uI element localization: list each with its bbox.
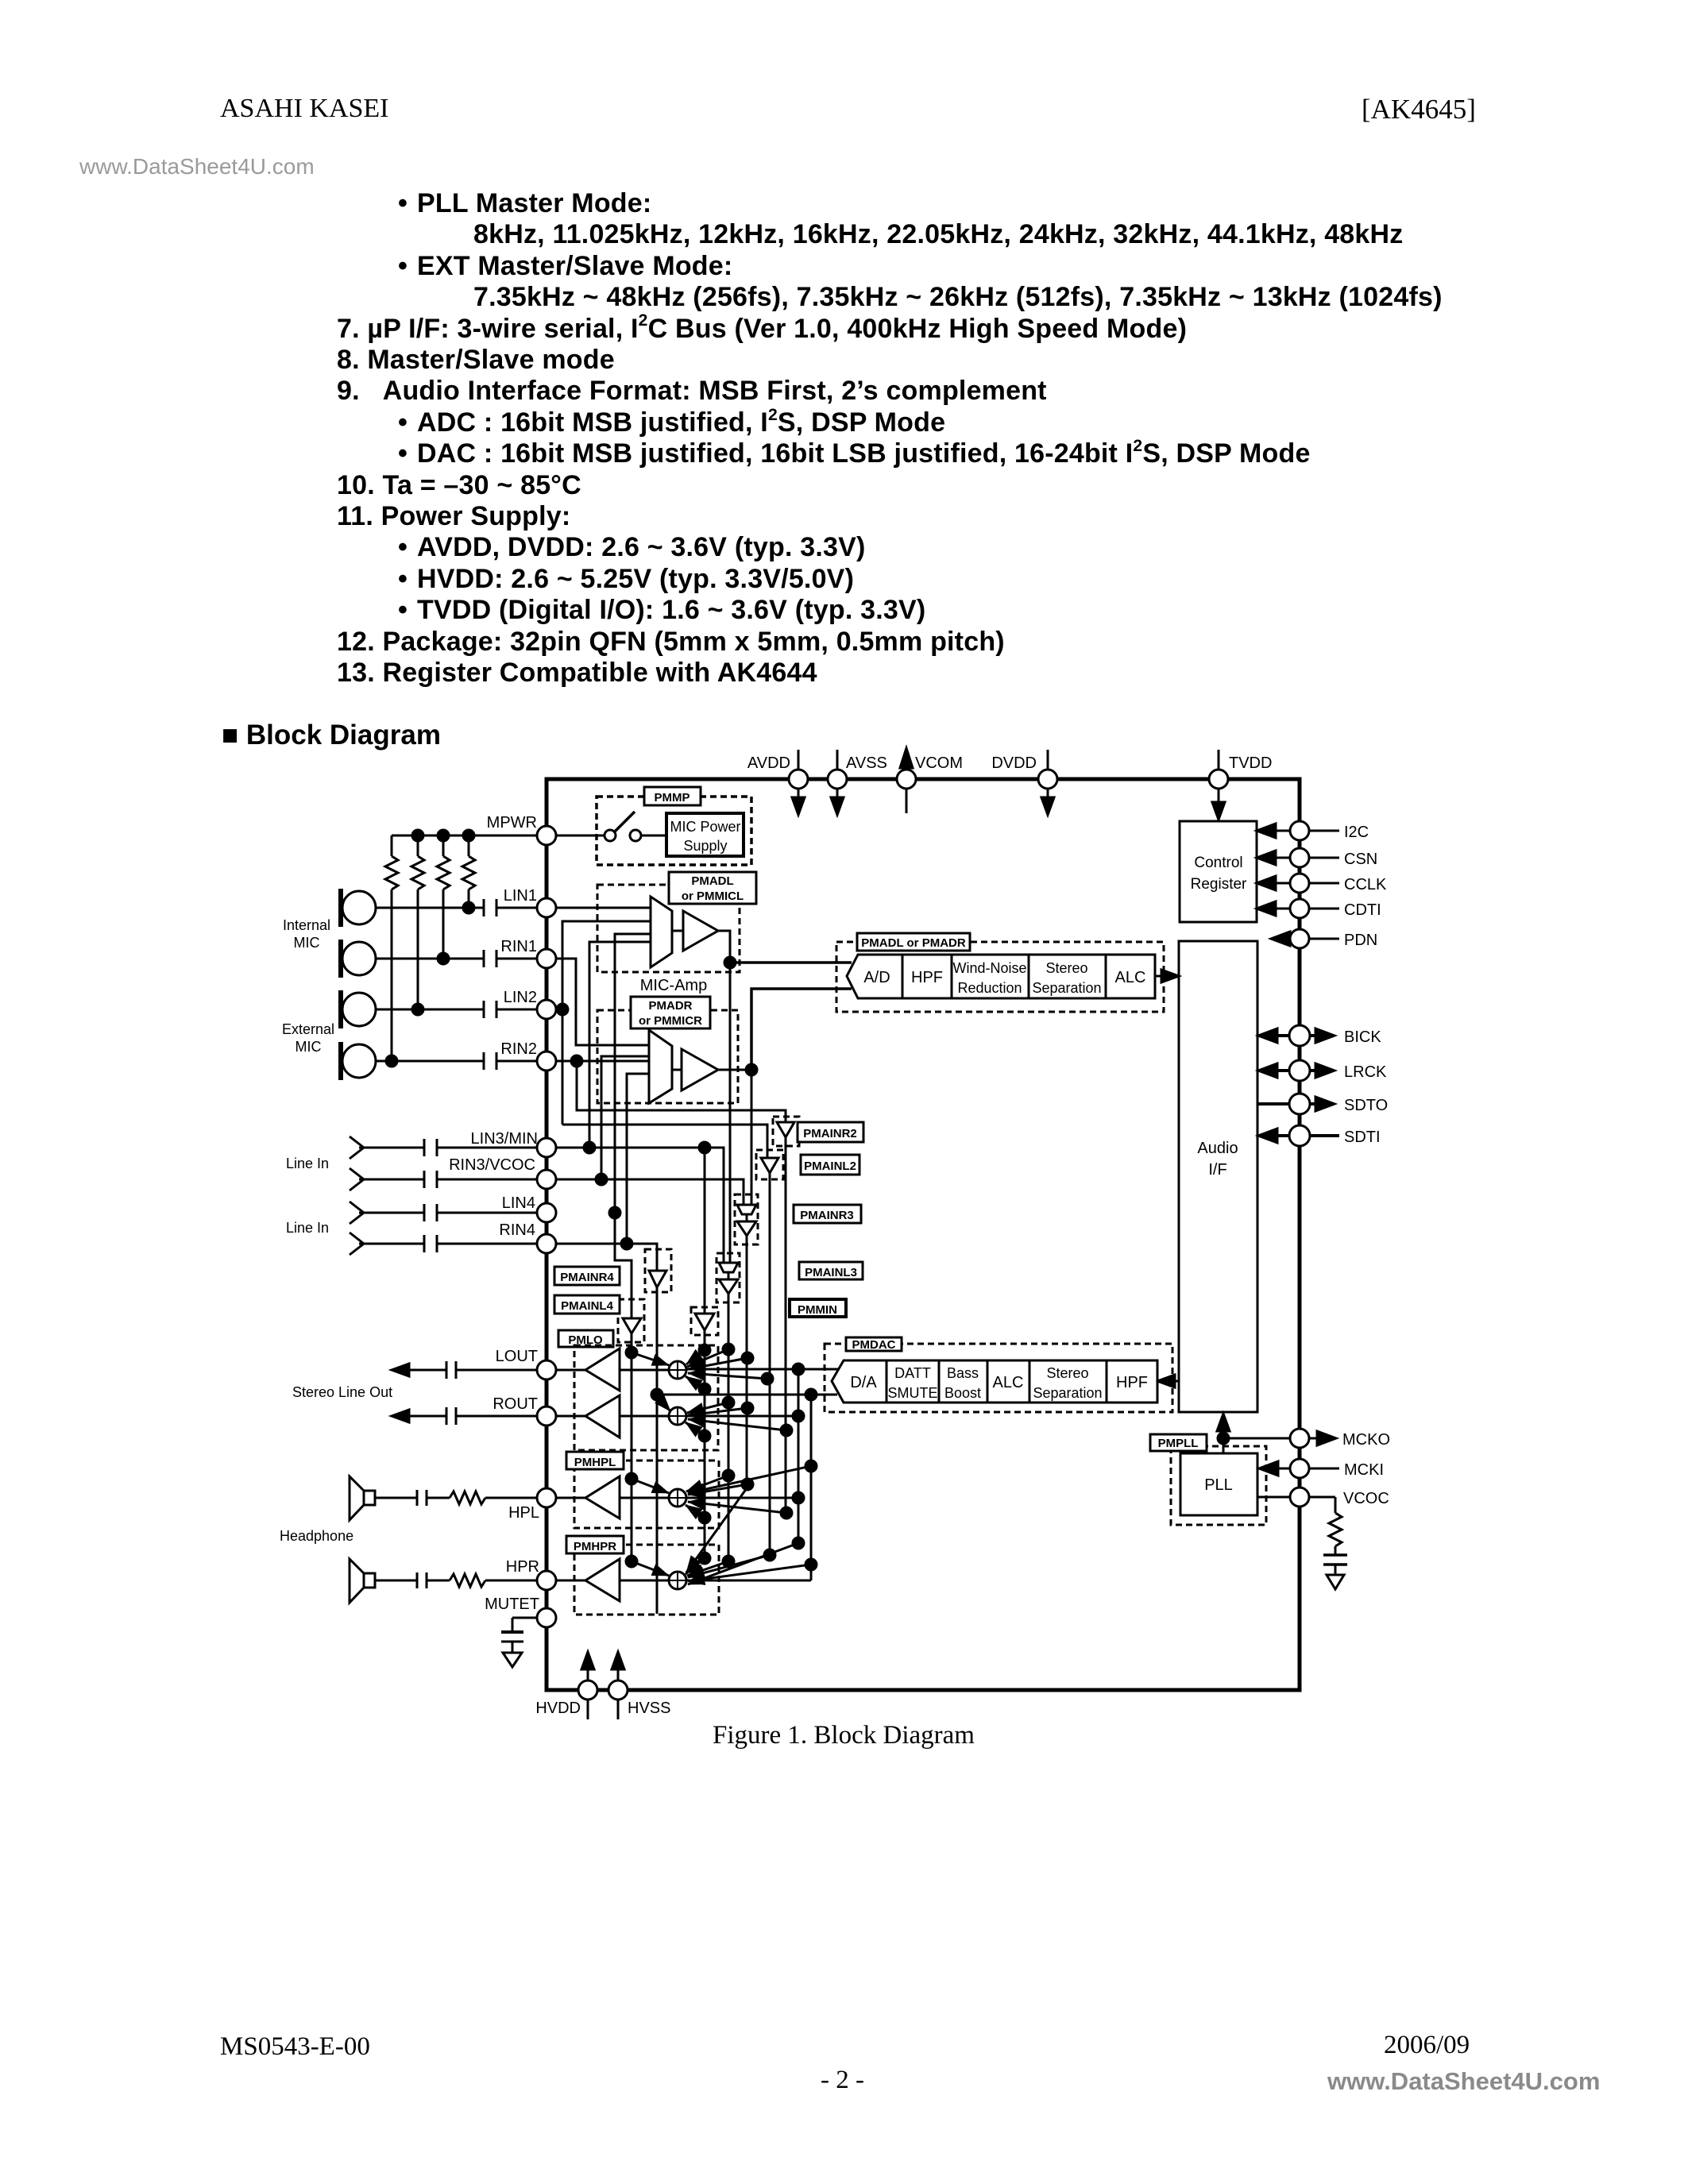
CDTI pin circle (1290, 899, 1309, 918)
RIN4 line continuation to attenuator (556, 1244, 657, 1271)
svg-text:PMAINL3: PMAINL3 (805, 1266, 857, 1279)
LIN3/MIN pin circle (537, 1138, 556, 1157)
MIC amp L second stage (672, 930, 683, 932)
svg-text:DVDD: DVDD (991, 754, 1037, 772)
LOUT pin circle (537, 1360, 556, 1379)
line in jack RIN4 (350, 1233, 364, 1255)
mixer arrows into HPL node (632, 1466, 811, 1518)
HPF block dac (1107, 1360, 1157, 1403)
junction dot MCKO (1218, 1433, 1229, 1444)
MIC amp input wire LIN2 elbow (556, 1009, 562, 1011)
attenuator PMAINL3 triangle (719, 1279, 738, 1294)
resistor pullup 3 (442, 835, 445, 856)
header part number (1362, 94, 1476, 125)
junction dots LOUT mixer (626, 1347, 637, 1358)
attenuator PMAINL2 dashed box (756, 1150, 783, 1179)
MIC amp input wire RIN2 (556, 1060, 649, 1063)
attenuator PMAINR3 output wire (746, 1236, 748, 1488)
svg-text:RIN1: RIN1 (500, 938, 537, 955)
svg-text:PMADR: PMADR (649, 999, 693, 1013)
label Control Register (1191, 855, 1247, 893)
PMADR PMMICR label box (631, 997, 710, 1028)
svg-text:VCOC: VCOC (1343, 1490, 1389, 1507)
DAC L to HPL node wire (686, 1497, 798, 1499)
svg-text:or PMMICR: or PMMICR (639, 1014, 702, 1028)
junction dot LIN2 (412, 1004, 423, 1015)
attenuator PMAINL4 triangle (623, 1318, 641, 1333)
BICK wire bidirectional (1273, 1034, 1320, 1037)
CSN wire and arrow (1274, 857, 1290, 859)
PMDAC dashed box (825, 1344, 1172, 1412)
I2C pin circle (1290, 821, 1309, 840)
svg-text:MIC: MIC (294, 935, 320, 951)
VCOC wire from PLL (1257, 1496, 1290, 1499)
svg-text:VCOM: VCOM (915, 754, 963, 772)
svg-text:Supply: Supply (683, 838, 727, 854)
svg-text:LRCK: LRCK (1344, 1063, 1387, 1081)
svg-text:MIC Power: MIC Power (670, 819, 740, 835)
PMPLL dashed box (1171, 1446, 1266, 1525)
attenuator PMMIN dashed box (691, 1307, 718, 1335)
coupling cap ROUT (446, 1407, 448, 1425)
VCOM pin circle (897, 770, 916, 789)
attenuator PMAINR2 dashed box (773, 1117, 799, 1146)
label Stereo Separation adc (1032, 960, 1101, 996)
MCKI pin circle (1290, 1459, 1309, 1478)
PMHPR label box (566, 1536, 624, 1553)
svg-text:HVDD: HVDD (535, 1700, 581, 1717)
PMAINR2 label box (798, 1122, 863, 1142)
TVDD pin circle (1209, 770, 1228, 789)
AVDD pin stub (798, 750, 800, 770)
svg-text:TVDD: TVDD (1229, 754, 1272, 772)
svg-text:HPL: HPL (508, 1504, 539, 1522)
LIN2 pin circle (537, 1000, 556, 1019)
label Internal MIC (283, 917, 330, 951)
PMAINL2 feed wire elbow (562, 1125, 767, 1158)
attenuator PMAINL4 dashed box (618, 1299, 644, 1342)
svg-text:MIC: MIC (295, 1039, 322, 1055)
svg-text:Headphone: Headphone (280, 1528, 353, 1544)
svg-text:Separation: Separation (1032, 980, 1101, 996)
mixer arrows into ROUT node (657, 1396, 786, 1436)
ALC block adc (1106, 955, 1155, 998)
switch contact circles (605, 830, 616, 841)
svg-text:PMHPL: PMHPL (574, 1456, 616, 1469)
A/D converter block (847, 955, 902, 998)
ground MUTET (503, 1653, 522, 1667)
HVSS pin circle (608, 1680, 628, 1700)
header company name (220, 94, 389, 124)
svg-text:Separation: Separation (1033, 1385, 1102, 1401)
LOUT driver amp (585, 1349, 620, 1391)
junction dot DACL at HPL (793, 1492, 804, 1503)
HPL driver output wire (556, 1497, 585, 1499)
headphone speaker HPR (364, 1573, 375, 1588)
attenuator PMAINR3 dashed box (735, 1194, 758, 1244)
svg-text:MCKO: MCKO (1342, 1431, 1390, 1449)
microphone internal L (342, 891, 376, 924)
audio interface block (1179, 941, 1257, 1412)
svg-text:Wind-Noise: Wind-Noise (952, 960, 1026, 976)
junction dot DACR (805, 1389, 817, 1400)
MUTET external cap to ground (512, 1617, 537, 1619)
junction dot PMMIN tap (699, 1142, 710, 1153)
PMAINR2 feed wire from RIN2 (577, 1061, 786, 1122)
coupling cap RIN1 (483, 950, 485, 967)
junction dots on MPWR rail (412, 830, 423, 841)
DAC L feed to HPR node (798, 1498, 800, 1543)
svg-text:AVSS: AVSS (846, 754, 887, 772)
SDTI pin circle (1289, 1125, 1310, 1146)
PMMIN feed wire down (704, 1148, 706, 1314)
mixer arrows into LOUT node (632, 1349, 767, 1389)
attenuator PMAINR3 volume cup (737, 1205, 756, 1214)
clock arrow up into audio IF (1223, 1430, 1225, 1438)
svg-text:LOUT: LOUT (496, 1348, 538, 1365)
attenuator PMAINR2 output wire (785, 1137, 787, 1513)
attenuator PMAINR3 triangle (737, 1221, 756, 1236)
MPWR pin circle (537, 826, 556, 845)
PMLO dashed box (574, 1345, 718, 1450)
label Wind-Noise Reduction (952, 960, 1026, 996)
HPL pin circle (537, 1488, 556, 1507)
MIC amp L first stage (651, 897, 672, 967)
junction dot RIN2 tap (571, 1055, 582, 1067)
PMMP label box (644, 787, 701, 805)
attenuator PMAINR4 dashed box (645, 1249, 671, 1292)
figure caption (713, 1721, 975, 1750)
mic power switch wire from MPWR (556, 835, 605, 837)
LOUT node to driver wire (620, 1369, 669, 1372)
CSN pin circle (1290, 848, 1309, 867)
LOUT driver output wire (556, 1369, 585, 1372)
svg-text:Stereo Line Out: Stereo Line Out (292, 1384, 392, 1400)
coupling cap HPL (416, 1490, 419, 1506)
svg-text:LIN3/MIN: LIN3/MIN (471, 1130, 538, 1148)
PMPLL label box (1150, 1434, 1207, 1451)
junction dot amp R output (746, 1064, 757, 1075)
AVDD arrow down (798, 789, 800, 799)
HPR pin circle (537, 1571, 556, 1590)
LRCK wire bidirectional (1273, 1069, 1320, 1072)
coupling cap LIN3 (423, 1139, 426, 1156)
svg-text:LIN1: LIN1 (504, 887, 537, 905)
HPF block adc (902, 955, 952, 998)
svg-text:CCLK: CCLK (1344, 876, 1387, 893)
mixer arrows into HPR node (632, 1488, 811, 1584)
LIN3 line continuation to PMMIN and PMAINL3 (556, 1148, 724, 1263)
svg-text:SDTO: SDTO (1344, 1097, 1388, 1114)
svg-text:PMAINR3: PMAINR3 (800, 1209, 854, 1222)
label Stereo Separation dac (1033, 1365, 1102, 1401)
VCOM stub down (906, 789, 908, 813)
svg-text:I/F: I/F (1208, 1161, 1226, 1179)
section heading (222, 720, 441, 751)
PMLO label box (558, 1330, 613, 1347)
PDN wire and arrow (1271, 932, 1290, 946)
ground VCOC (1327, 1575, 1344, 1589)
PMMIN label box (790, 1299, 846, 1317)
DAC L output wire (686, 1368, 838, 1371)
I2C wire and arrow (1274, 830, 1290, 832)
AVSS arrow down (836, 789, 839, 799)
junction dot LIN4 tap (609, 1207, 620, 1218)
capacitor MUTET (501, 1630, 523, 1634)
RIN2 pin circle (537, 1051, 556, 1071)
HPL node to driver wire (620, 1497, 669, 1499)
MCKO pin circle (1290, 1429, 1309, 1448)
MIC amp R second stage (672, 1069, 682, 1071)
HVDD pin stub below (587, 1700, 589, 1719)
svg-text:Reduction: Reduction (957, 980, 1022, 996)
switch lever (615, 812, 635, 832)
LIN1 input wire (376, 907, 484, 909)
svg-text:A/D: A/D (863, 969, 890, 986)
svg-text:AVDD: AVDD (747, 754, 790, 772)
junction dots ROUT mixer (723, 1397, 734, 1408)
MPWR rail to pullup resistors (392, 835, 537, 837)
svg-text:MPWR: MPWR (487, 814, 537, 832)
svg-text:SMUTE: SMUTE (888, 1385, 938, 1401)
svg-text:ROUT: ROUT (492, 1395, 538, 1413)
svg-text:CSN: CSN (1344, 851, 1377, 868)
resistor pullup 2 (417, 835, 419, 856)
PMMP dashed box (597, 797, 751, 865)
AVSS pin stub (836, 750, 839, 770)
PMADL PMMICL dashed box (597, 885, 740, 972)
PMHPL dashed box (574, 1461, 719, 1528)
series resistor HPR (450, 1574, 485, 1587)
HPR driver amp (585, 1559, 620, 1601)
mic power supply block (666, 813, 744, 856)
RIN3 tap wire to amp (601, 1056, 649, 1179)
svg-text:MCKI: MCKI (1344, 1461, 1384, 1479)
junction dot RIN1 (438, 953, 449, 964)
junction dots HPL mixer (626, 1473, 637, 1484)
coupling cap LOUT (446, 1361, 448, 1379)
svg-text:ALC: ALC (1115, 969, 1146, 986)
svg-text:PMADL: PMADL (691, 874, 733, 888)
RIN4 tap wire to amp (627, 1074, 649, 1244)
capacitor VCOC (1323, 1553, 1347, 1557)
svg-text:PMAINR4: PMAINR4 (560, 1271, 614, 1284)
svg-text:Bass: Bass (947, 1365, 979, 1381)
svg-text:PMAINL4: PMAINL4 (561, 1299, 613, 1313)
svg-text:Line In: Line In (286, 1220, 329, 1236)
CDTI wire and arrow (1274, 908, 1290, 910)
resistor pullup 1 (391, 835, 393, 856)
svg-text:HPR: HPR (506, 1558, 539, 1576)
RIN4 pin circle (537, 1234, 556, 1253)
junction dot RIN2 (386, 1055, 397, 1067)
PMAINR4 label box (554, 1267, 620, 1285)
DATT SMUTE block (886, 1360, 939, 1403)
amp R output wire to ADC and PMAINR3 (718, 1070, 751, 1205)
VCOC pin circle (1290, 1488, 1309, 1507)
svg-text:ALC: ALC (993, 1374, 1024, 1391)
attenuator PMAINR4 triangle (649, 1271, 666, 1287)
MCKO wire (1223, 1437, 1290, 1440)
ADC output arrow to audio IF (1155, 975, 1165, 978)
svg-text:HPF: HPF (911, 969, 943, 986)
footer page number (821, 2066, 864, 2095)
junction dot amp L output (724, 957, 736, 968)
attenuator PMAINL3 output wire (728, 1294, 730, 1561)
MCKO out arrow (1309, 1437, 1320, 1440)
svg-text:RIN2: RIN2 (500, 1040, 537, 1058)
junction dot RIN3 tap (596, 1174, 607, 1185)
wind noise reduction block (952, 955, 1029, 998)
coupling cap RIN2 (483, 1052, 485, 1070)
DAC R output wire (657, 1394, 837, 1396)
PMAINL4 label box (554, 1295, 620, 1314)
svg-text:PMAINR2: PMAINR2 (803, 1127, 857, 1140)
line in jack LIN4 (350, 1202, 364, 1224)
LIN2 input wire (376, 1009, 484, 1011)
DVDD pin circle (1038, 770, 1057, 789)
junction dot RIN4 tap (621, 1238, 632, 1249)
ROUT driver amp (585, 1395, 620, 1437)
HVSS pin stub below (617, 1700, 620, 1719)
AVDD pin circle (789, 770, 808, 789)
attenuator PMMIN triangle (695, 1314, 714, 1330)
svg-text:PMMP: PMMP (655, 791, 690, 805)
junction dot LIN1 (463, 902, 474, 913)
attenuator PMAINL2 output wire (769, 1173, 771, 1555)
HPR node feed wire right (686, 1580, 811, 1582)
power rail top edge (789, 748, 1228, 820)
stereo separation block dac (1029, 1360, 1107, 1403)
svg-text:Stereo: Stereo (1046, 1365, 1088, 1381)
RIN1 pin circle (537, 949, 556, 968)
svg-text:Stereo: Stereo (1045, 960, 1087, 976)
svg-text:Internal: Internal (283, 917, 330, 933)
svg-text:RIN4: RIN4 (499, 1221, 535, 1239)
CCLK wire and arrow (1274, 882, 1290, 885)
coupling cap HPR (416, 1572, 419, 1588)
PMHPR dashed box (574, 1545, 719, 1615)
PMAINL2 label box (801, 1155, 859, 1175)
svg-text:PMLO: PMLO (568, 1333, 603, 1347)
svg-text:LIN4: LIN4 (502, 1194, 535, 1212)
junction dots HPR mixer (626, 1556, 637, 1567)
PMADR PMMICR dashed box (597, 1010, 738, 1103)
RIN3/VCOC pin circle (537, 1170, 556, 1189)
svg-text:External: External (282, 1021, 334, 1037)
summing node LOUT (669, 1361, 686, 1379)
label DATT SMUTE (888, 1365, 938, 1401)
summing node ROUT (669, 1407, 686, 1425)
PMADL PMMICL label box (669, 872, 756, 904)
microphone internal R (342, 942, 376, 975)
AVSS pin circle (828, 770, 847, 789)
LIN4 pin circle (537, 1203, 556, 1222)
headphone speaker HPL (364, 1491, 375, 1505)
line in jack LIN3 (350, 1136, 364, 1159)
ADC chain dashed box PMADL or PMADR (836, 942, 1164, 1012)
svg-text:Boost: Boost (944, 1385, 981, 1401)
TVDD pin stub (1218, 750, 1220, 770)
chip boundary AK4645 (547, 779, 1300, 1690)
coupling cap LIN4 (423, 1204, 426, 1221)
svg-text:Line In: Line In (286, 1156, 329, 1171)
svg-text:HVSS: HVSS (628, 1700, 670, 1717)
watermark bottom (1327, 2067, 1600, 2096)
wire switch to mic power supply (641, 835, 666, 837)
junction dot LIN3 tap (584, 1142, 595, 1153)
ROUT external arrow (392, 1410, 409, 1422)
resistor VCOC (1329, 1513, 1342, 1546)
junction dot DACL (793, 1364, 804, 1375)
feature list (337, 188, 1528, 689)
svg-text:PMHPR: PMHPR (574, 1540, 616, 1553)
svg-text:PMADL or PMADR: PMADL or PMADR (861, 936, 966, 950)
junction dot LIN2 tap (557, 1004, 568, 1015)
PMDAC label box (846, 1337, 902, 1351)
DAC L feed down wire (798, 1369, 800, 1498)
MUTET pin circle (537, 1608, 556, 1627)
svg-text:PMDAC: PMDAC (852, 1338, 896, 1352)
series resistor HPL (450, 1491, 485, 1504)
svg-text:PMPLL: PMPLL (1158, 1437, 1199, 1450)
LIN4 tap wire to amp and attenuator feed (615, 934, 651, 1318)
footer date (1384, 2031, 1470, 2060)
svg-text:PMMIN: PMMIN (798, 1303, 837, 1317)
label Bass Boost (944, 1365, 981, 1401)
coupling cap LIN1 (483, 899, 485, 916)
LIN3 tap wire to amp (589, 942, 651, 1148)
audio IF clock wire to PLL (1223, 1438, 1225, 1453)
svg-text:PMAINL2: PMAINL2 (804, 1160, 856, 1173)
stereo separation block adc (1029, 955, 1106, 998)
label External MIC (282, 1021, 334, 1055)
RIN3 line continuation to PMAINR3 (556, 1179, 744, 1205)
RIN2 input wire (376, 1060, 484, 1063)
line in jack RIN3 (350, 1168, 364, 1190)
coupling cap RIN3 (423, 1171, 426, 1188)
resistor pullup 4 (468, 835, 470, 856)
HPR node to driver wire (620, 1580, 669, 1582)
HPL driver amp (585, 1476, 620, 1518)
watermark top (79, 154, 315, 179)
microphone external R (342, 1044, 376, 1078)
summing node HPL (669, 1489, 686, 1507)
svg-text:PLL: PLL (1204, 1476, 1233, 1494)
PLL block (1180, 1453, 1257, 1515)
DAC R feed down wire (810, 1395, 813, 1580)
MCKI wire and arrow into PLL (1277, 1468, 1290, 1470)
svg-text:Audio: Audio (1197, 1140, 1238, 1157)
ROUT node feed wire right (686, 1415, 798, 1418)
attenuator PMAINR4 output wire (656, 1287, 659, 1614)
ROUT node to driver wire (620, 1415, 669, 1418)
svg-text:Control: Control (1194, 855, 1242, 871)
MIC amp input wire LIN1 (556, 907, 651, 909)
attenuator PMAINR2 triangle (777, 1122, 794, 1137)
HVSS arrow up (612, 1652, 624, 1669)
HVDD pin circle (578, 1680, 597, 1700)
svg-text:RIN3/VCOC: RIN3/VCOC (449, 1156, 535, 1174)
ROUT driver output wire (556, 1415, 585, 1418)
SDTO wire out (1257, 1102, 1320, 1106)
HVDD arrow up (581, 1652, 594, 1669)
bass boost block (939, 1360, 987, 1403)
PMADL or PMADR label box (857, 933, 970, 951)
HPR driver output wire (556, 1580, 585, 1582)
microphone external L (342, 993, 376, 1026)
DVDD pin stub (1047, 750, 1049, 770)
